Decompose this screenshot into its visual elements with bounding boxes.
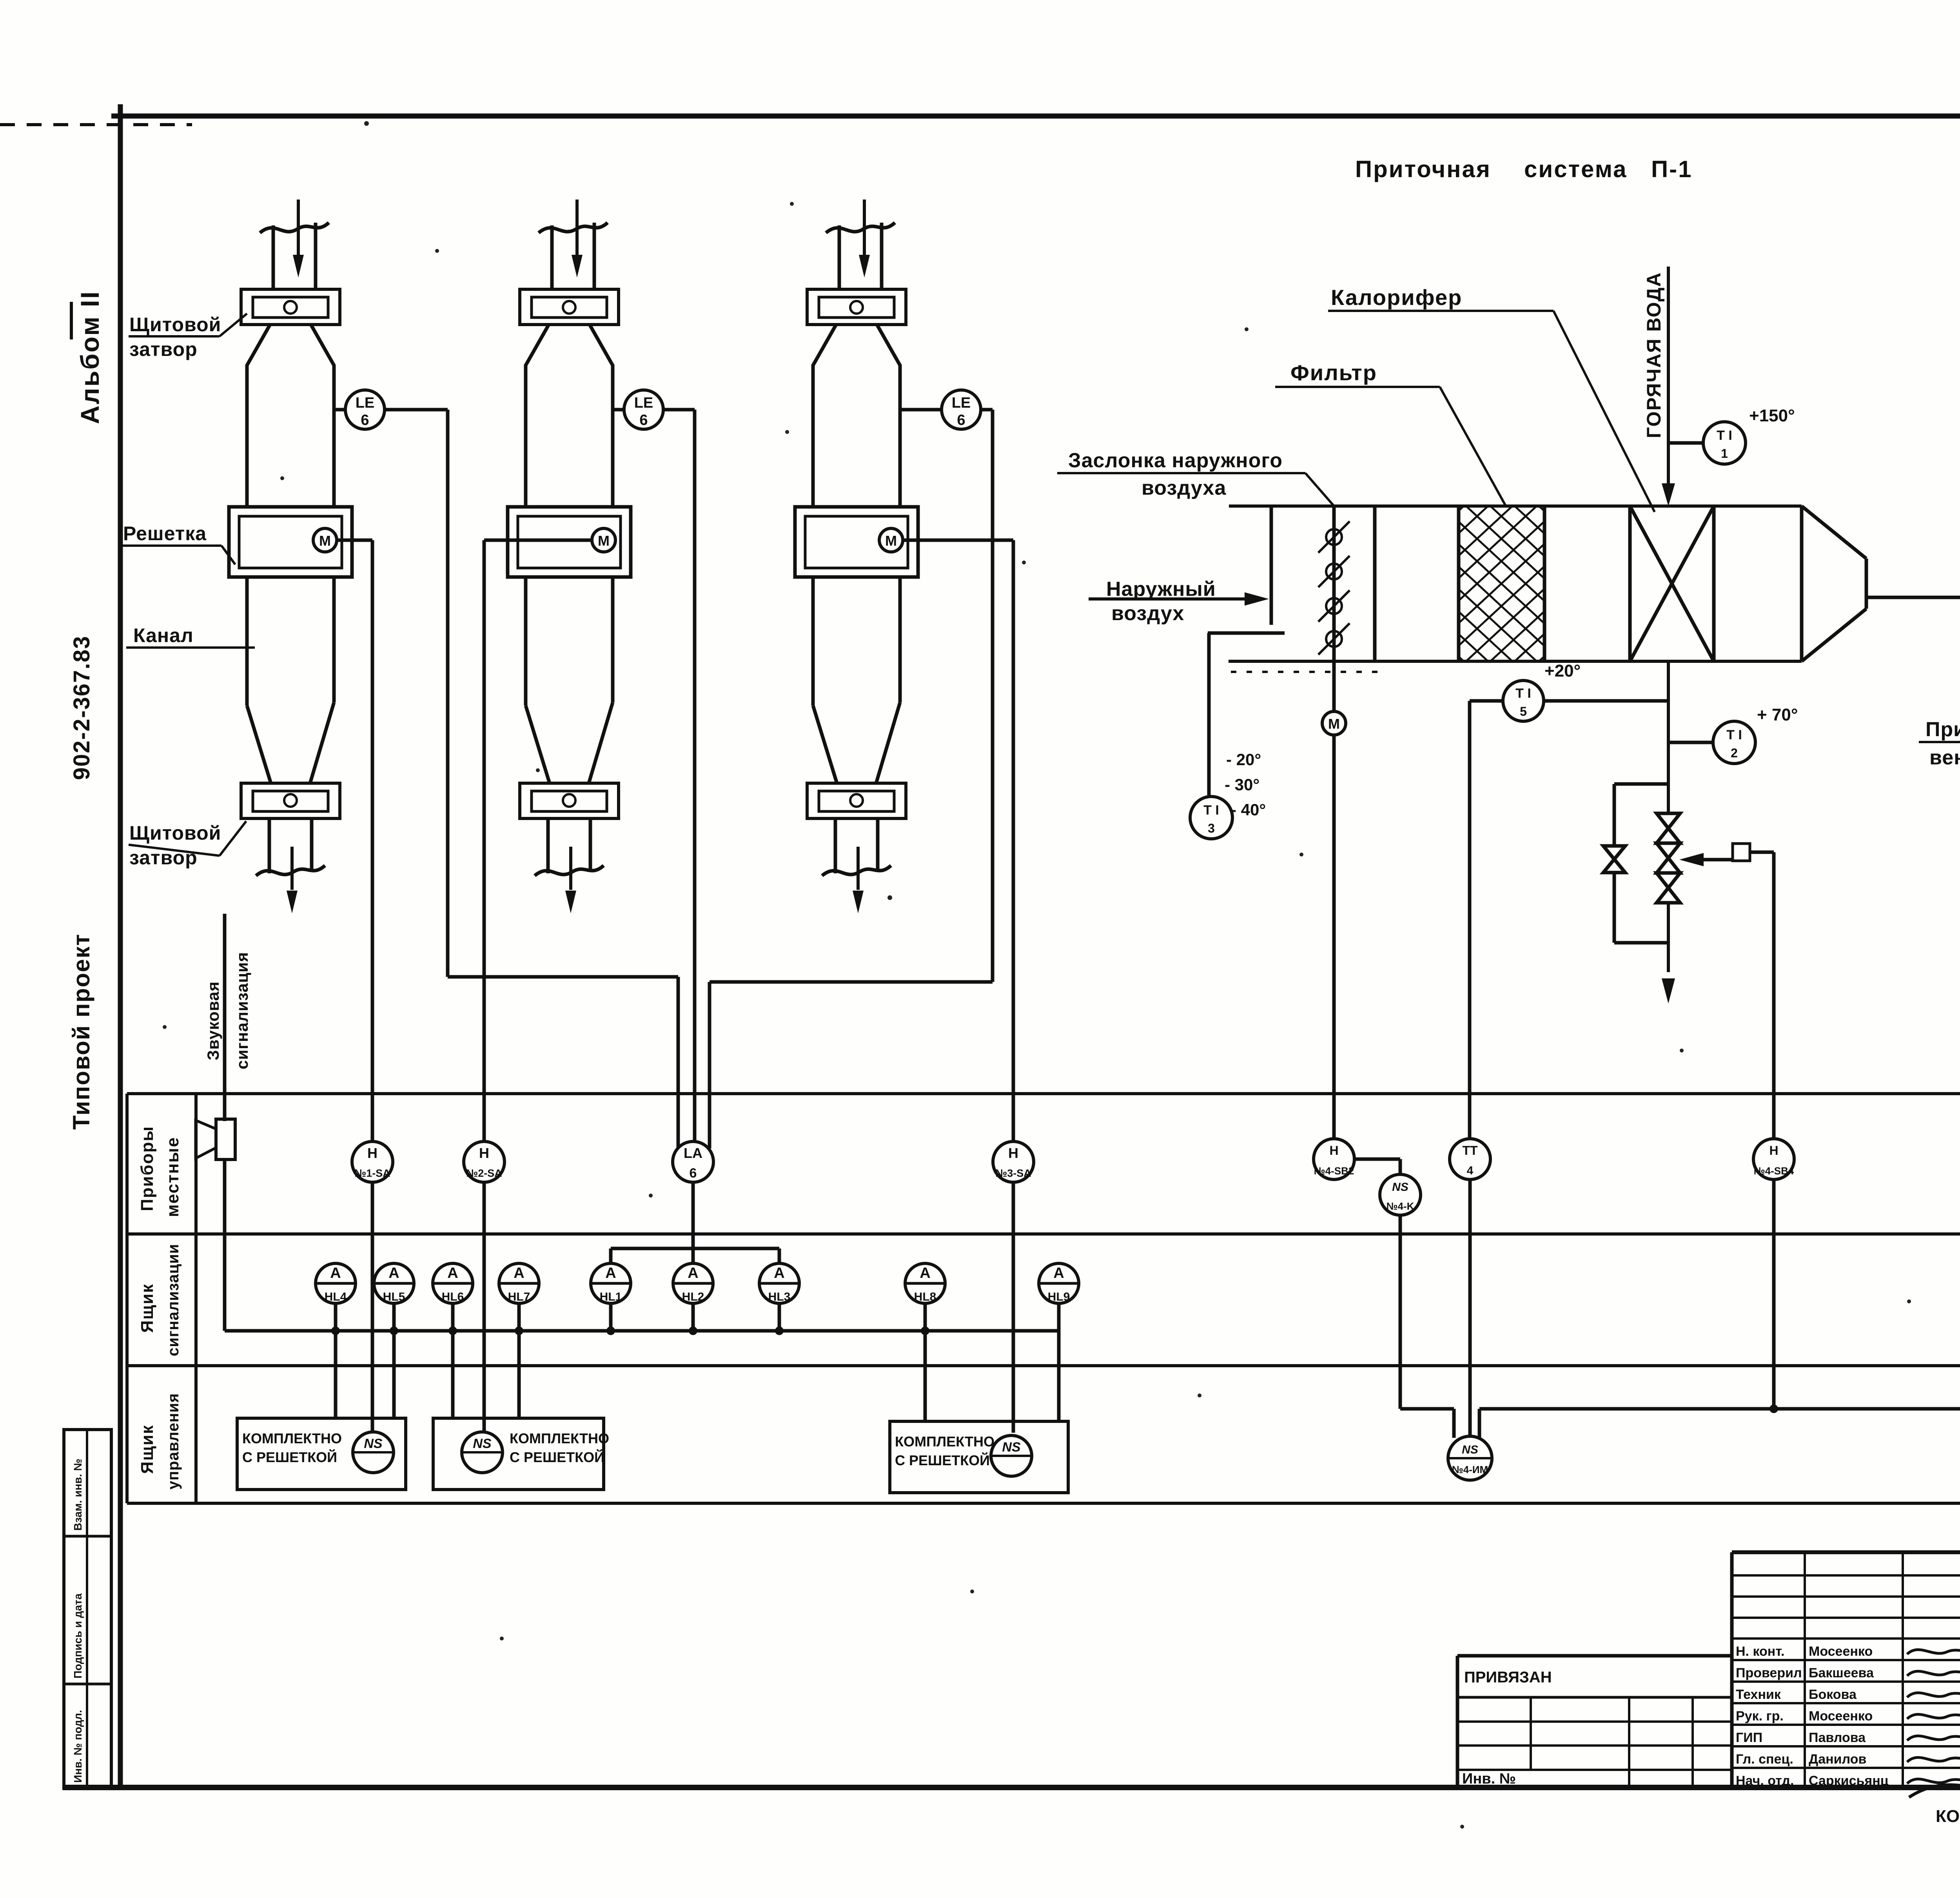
svg-text:С РЕШЕТКОЙ: С РЕШЕТКОЙ	[510, 1449, 604, 1465]
svg-text:HL9: HL9	[1048, 1290, 1070, 1303]
svg-text:HL8: HL8	[914, 1290, 936, 1303]
svg-text:2: 2	[1731, 746, 1738, 760]
damper blade	[1326, 564, 1342, 579]
svg-text:Ящик: Ящик	[138, 1424, 157, 1474]
svg-text:NS: NS	[1462, 1443, 1478, 1456]
hot water return line	[1667, 661, 1670, 813]
filter section right wall	[1543, 506, 1546, 661]
svg-text:воздух: воздух	[1111, 602, 1184, 625]
wire HL9 to bus corner	[1057, 1303, 1061, 1331]
channel 3 bottom gate (щитовой затвор)	[807, 783, 906, 818]
svg-text:NS: NS	[473, 1436, 492, 1451]
channel 3 bottom taper	[813, 706, 837, 783]
channel 3 top taper	[813, 325, 836, 365]
svg-text:HL6: HL6	[442, 1290, 464, 1303]
svg-text:- 30°: - 30°	[1225, 775, 1259, 794]
signal lamp A HL1	[591, 1263, 631, 1303]
svg-text:HL3: HL3	[768, 1290, 791, 1303]
signal lamp A HL2	[673, 1263, 713, 1303]
svg-text:HL1: HL1	[600, 1290, 622, 1303]
channel 3 inlet arrow	[863, 200, 866, 256]
channel 1 level sensor LE6	[334, 408, 345, 412]
svg-text:5: 5	[1520, 704, 1527, 719]
svg-text:A: A	[774, 1265, 784, 1281]
wire H4-SB4 to bus	[1772, 1179, 1776, 1409]
channel 2 outlet arrow	[569, 847, 572, 890]
svg-text:A: A	[330, 1265, 341, 1281]
svg-text:Калорифер: Калорифер	[1331, 285, 1462, 310]
outlet nozzle	[1802, 506, 1866, 559]
svg-text:№3-SA: №3-SA	[995, 1167, 1031, 1179]
svg-text:902-2-367.83: 902-2-367.83	[69, 635, 94, 780]
svg-text:КОМПЛЕКТНО: КОМПЛЕКТНО	[510, 1430, 609, 1446]
channel 3 grille box (решетка)	[795, 507, 918, 577]
channel 1 bottom gate (щитовой затвор)	[241, 783, 340, 818]
damper blade	[1326, 631, 1342, 647]
wire H4-SB2 to NS4-K	[1354, 1158, 1400, 1161]
svg-text:Мосеенко: Мосеенко	[1809, 1709, 1873, 1724]
heater X diagonals	[1630, 506, 1714, 661]
svg-text:HL2: HL2	[682, 1290, 704, 1303]
svg-text:Наружный: Наружный	[1106, 578, 1216, 601]
outside air arrow	[1089, 597, 1245, 601]
wire LA6 down	[691, 1182, 695, 1265]
filter hatch	[1213, 497, 1790, 671]
wire LE2 vertical	[693, 410, 697, 1141]
svg-text:+20°: +20°	[1544, 661, 1581, 680]
svg-text:П-1: П-1	[1651, 156, 1692, 182]
svg-text:Щитовой: Щитовой	[129, 822, 221, 844]
svg-text:затвор: затвор	[129, 338, 198, 360]
svg-text:Заслонка наружного: Заслонка наружного	[1068, 449, 1283, 472]
signal lamp A HL3	[759, 1263, 799, 1303]
channel 2 grille box (решетка)	[508, 507, 631, 577]
wire H2 to control box	[483, 1182, 486, 1433]
thermometer TI2 +70	[1668, 741, 1713, 744]
rows label column	[125, 1094, 129, 1503]
rows table boundaries	[127, 1092, 1960, 1095]
svg-text:LE: LE	[952, 395, 971, 411]
svg-text:КОМПЛЕКТНО: КОМПЛЕКТНО	[242, 1430, 342, 1446]
svg-text:воздуха: воздуха	[1142, 477, 1226, 499]
svg-text:HL5: HL5	[383, 1290, 405, 1303]
channel 2 top taper	[526, 325, 549, 365]
svg-text:3: 3	[1208, 821, 1215, 835]
svg-text:Бакшеева: Бакшеева	[1809, 1666, 1874, 1680]
channel 1 inlet pipe break line	[260, 223, 329, 233]
left column grid	[1457, 1720, 1732, 1723]
svg-text:6: 6	[957, 412, 965, 428]
channel 1 outlet pipe	[268, 818, 271, 873]
wire M2	[484, 539, 592, 542]
svg-text:Альбом II: Альбом II	[75, 290, 104, 424]
svg-text:Приборы: Приборы	[138, 1126, 157, 1211]
channel 1 bottom taper	[247, 706, 271, 783]
speaker symbol	[216, 1119, 235, 1159]
svg-text:A: A	[688, 1265, 698, 1281]
svg-text:Нач. отд.: Нач. отд.	[1736, 1773, 1794, 1788]
wire HL5 to bus	[392, 1303, 396, 1331]
svg-text:TT: TT	[1462, 1143, 1478, 1158]
channel 2 inlet pipe	[550, 225, 554, 290]
svg-text:NS: NS	[1392, 1181, 1408, 1194]
channel 3 grille motor M	[879, 528, 903, 552]
svg-text:A: A	[1053, 1265, 1064, 1281]
wire LE1	[385, 408, 448, 412]
wire звуковая сигнализация	[223, 914, 227, 1121]
temperature transmitter TT4	[1450, 1139, 1490, 1179]
bypass valve	[1603, 846, 1625, 873]
svg-text:Саркисьянц: Саркисьянц	[1809, 1773, 1889, 1788]
svg-text:M: M	[1328, 716, 1340, 732]
channel 2 level sensor LE6	[613, 408, 624, 412]
signal lamp A HL7	[499, 1263, 539, 1303]
svg-text:H: H	[1008, 1145, 1018, 1161]
svg-text:LE: LE	[634, 395, 653, 411]
svg-text:6: 6	[361, 412, 369, 428]
svg-text:NS: NS	[1002, 1440, 1021, 1455]
outside air damper axis	[1332, 506, 1336, 711]
svg-text:Инв. № подл.: Инв. № подл.	[72, 1710, 84, 1783]
svg-text:LE: LE	[356, 395, 375, 411]
channel 2 outlet pipe	[546, 818, 550, 873]
wire LE2	[663, 408, 695, 412]
svg-text:Павлова: Павлова	[1809, 1730, 1866, 1745]
svg-text:Н. конт.: Н. конт.	[1736, 1644, 1784, 1659]
channel 1 body walls	[245, 365, 249, 508]
svg-text:ГОРЯЧАЯ ВОДА: ГОРЯЧАЯ ВОДА	[1643, 272, 1665, 438]
signal lamp A HL5	[374, 1263, 414, 1303]
svg-text:6: 6	[639, 412, 648, 428]
filter section left wall	[1457, 506, 1461, 661]
AHU right wall	[1800, 506, 1804, 661]
big signature flourish	[1909, 1779, 1960, 1797]
svg-text:A: A	[605, 1265, 616, 1281]
damper blade	[1326, 598, 1342, 614]
svg-text:Решетка: Решетка	[123, 523, 207, 544]
wire M1	[337, 539, 372, 542]
signal bus	[225, 1329, 1059, 1333]
local button H №4-SB2	[1314, 1139, 1354, 1179]
channel 1 grille box (решетка)	[229, 507, 352, 577]
wires HL8 HL9 to control box 3	[924, 1331, 927, 1421]
channel 3 outlet break line	[822, 866, 891, 876]
svg-text:- 40°: - 40°	[1231, 800, 1266, 819]
svg-text:С РЕШЕТКОЙ: С РЕШЕТКОЙ	[242, 1449, 337, 1465]
svg-text:№4-K: №4-K	[1387, 1200, 1414, 1212]
channel 1 inlet arrow	[297, 200, 300, 256]
svg-text:4: 4	[1467, 1164, 1474, 1177]
control row bus	[1479, 1407, 1960, 1411]
thermometer TI1 +150	[1668, 441, 1704, 445]
svg-text:LA: LA	[684, 1145, 702, 1161]
svg-text:№4-SB2: №4-SB2	[1314, 1165, 1354, 1177]
svg-text:Фильтр: Фильтр	[1290, 360, 1377, 385]
svg-text:T I: T I	[1717, 428, 1732, 443]
channel 2 bottom gate (щитовой затвор)	[520, 783, 619, 818]
svg-text:Проверил: Проверил	[1736, 1666, 1802, 1680]
svg-text:NS: NS	[364, 1436, 383, 1451]
svg-text:A: A	[447, 1265, 458, 1281]
channel 3 inlet pipe break line	[826, 223, 895, 233]
wire HL3 to bus	[778, 1303, 781, 1331]
channel 3 inlet pipe	[838, 225, 841, 290]
svg-text:Приточная: Приточная	[1355, 156, 1491, 182]
wire TT4 down	[1468, 1179, 1472, 1436]
svg-text:M: M	[598, 533, 610, 549]
svg-text:Мосеенко: Мосеенко	[1809, 1644, 1873, 1659]
channel 2 top gate (щитовой затвор)	[520, 289, 619, 325]
svg-text:Типовой проект: Типовой проект	[68, 933, 94, 1130]
wire damper M down	[1332, 735, 1336, 1139]
wire NS4-K down to row bus	[1399, 1215, 1402, 1409]
signal lamp A HL4	[316, 1263, 356, 1303]
AHU duct bottom wall	[1229, 660, 1802, 663]
svg-text:Техник: Техник	[1736, 1687, 1781, 1702]
svg-text:С РЕШЕТКОЙ: С РЕШЕТКОЙ	[895, 1452, 990, 1468]
wire HL8 to bus	[924, 1303, 927, 1331]
local lamp H №1-SA	[352, 1141, 393, 1182]
channel 2 inlet arrow	[575, 200, 579, 256]
channel 2 grille motor M	[592, 528, 615, 552]
frame left border	[118, 104, 123, 1790]
svg-text:сигнализации: сигнализации	[165, 1244, 182, 1356]
sig table columns	[1804, 1552, 1806, 1787]
local button H №4-SB4	[1753, 1139, 1794, 1179]
title block left column привязан	[1457, 1654, 1732, 1658]
svg-text:ПРИВЯЗАН: ПРИВЯЗАН	[1464, 1669, 1552, 1686]
svg-text:№1-SA: №1-SA	[354, 1167, 390, 1179]
svg-text:ГИП: ГИП	[1736, 1730, 1762, 1745]
hot water supply line	[1667, 267, 1670, 500]
svg-text:Гл. спец.: Гл. спец.	[1736, 1752, 1793, 1767]
control box 3 комплектно с решеткой	[890, 1421, 1068, 1493]
bracket HL1-HL3	[609, 1248, 613, 1265]
wire HL4 to bus	[334, 1303, 338, 1331]
svg-text:Инв. №: Инв. №	[1462, 1771, 1516, 1787]
heater section right wall	[1712, 506, 1716, 661]
local lamp H №2-SA	[464, 1141, 505, 1182]
svg-text:№4-ИМ: №4-ИМ	[1452, 1464, 1488, 1475]
sig table rows	[1732, 1574, 1960, 1577]
svg-text:Взам. инв. №: Взам. инв. №	[72, 1459, 84, 1531]
channel 1 inlet pipe	[272, 225, 275, 290]
channel 3 outlet pipe	[834, 818, 837, 873]
registration dashes top-left	[0, 123, 192, 126]
channel 2 body walls	[524, 365, 528, 508]
svg-text:A: A	[920, 1265, 930, 1281]
wire M3	[903, 539, 1013, 542]
svg-text:H: H	[1329, 1143, 1338, 1158]
wire LE3 vertical and jog	[991, 410, 995, 982]
svg-text:H: H	[367, 1145, 377, 1161]
heater section left wall	[1628, 506, 1632, 661]
control box 1 комплектно с решеткой	[237, 1418, 406, 1490]
wire actuator to H4-SB4	[1772, 852, 1776, 1139]
valve outlet line with arrow	[1667, 903, 1670, 972]
damper sensor lip	[1208, 631, 1285, 635]
svg-text:Приточный: Приточный	[1926, 718, 1960, 741]
wire H3 to control box	[1012, 1182, 1015, 1433]
channel 3 level sensor LE6	[900, 408, 942, 412]
svg-text:местные: местные	[163, 1137, 182, 1217]
starter NS №4-K	[1380, 1174, 1421, 1215]
signal lamp A HL9	[1039, 1263, 1079, 1303]
scan speckles	[364, 121, 369, 126]
thermometer TI5 +20	[1470, 699, 1503, 703]
outlet duct line to fan	[1866, 596, 1960, 599]
svg-text:- 20°: - 20°	[1226, 750, 1261, 769]
wire HL6 to bus	[451, 1303, 455, 1331]
valve actuator	[1679, 853, 1704, 866]
thermometer TI3	[1190, 797, 1232, 839]
wire LE1 vertical and jog	[446, 410, 450, 977]
svg-text:M: M	[885, 533, 897, 549]
outside temp sensor line TI3	[1207, 633, 1211, 797]
svg-text:+150°: +150°	[1749, 406, 1795, 425]
svg-text:Ящик: Ящик	[138, 1283, 157, 1333]
level alarm LA6	[673, 1141, 713, 1182]
frame top border	[111, 114, 1960, 119]
channel 1 top taper	[247, 325, 270, 365]
valve bypass loop	[1614, 782, 1668, 786]
svg-text:КОМПЛЕКТНО: КОМПЛЕКТНО	[895, 1433, 995, 1450]
damper section right wall	[1373, 506, 1377, 661]
damper blade	[1326, 529, 1342, 545]
svg-text:управления: управления	[165, 1393, 182, 1490]
svg-text:Щитовой: Щитовой	[129, 314, 221, 336]
local lamp H №3-SA	[993, 1141, 1034, 1182]
svg-text:+ 70°: + 70°	[1757, 705, 1798, 724]
svg-text:HL7: HL7	[508, 1290, 530, 1303]
title block outline	[1732, 1550, 1960, 1554]
svg-text:Канал: Канал	[133, 624, 194, 646]
wires HL4-HL7 to control boxes	[334, 1331, 338, 1418]
channel 1 top gate (щитовой затвор)	[241, 289, 340, 325]
actuator starter NS №4-ИМ	[1448, 1436, 1492, 1480]
damper section left wall	[1270, 506, 1273, 625]
svg-text:H: H	[1769, 1143, 1778, 1158]
channel 3 outlet arrow	[857, 847, 860, 890]
wire H1 to control box	[371, 1182, 374, 1433]
wire HL1 to bus	[609, 1303, 613, 1331]
svg-text:6: 6	[690, 1166, 697, 1181]
svg-text:сигнализация: сигнализация	[233, 952, 251, 1069]
signal lamp A HL6	[433, 1263, 473, 1303]
wire TI5 riser to TT4	[1468, 701, 1472, 1139]
svg-text:Подпись и дата: Подпись и дата	[72, 1593, 84, 1678]
svg-text:T I: T I	[1515, 686, 1531, 701]
control valve stack (3-way)	[1657, 813, 1680, 843]
svg-text:КОПИРОВАЛ ЕРЕМЧЕНКО: КОПИРОВАЛ ЕРЕМЧЕНКО	[1936, 1807, 1960, 1826]
svg-text:Бокова: Бокова	[1809, 1687, 1857, 1702]
signal lamp A HL8	[905, 1263, 945, 1303]
channel 3 body walls	[811, 365, 815, 508]
svg-text:H: H	[479, 1145, 489, 1161]
AHU duct top wall	[1229, 504, 1802, 508]
svg-text:№4-SB4: №4-SB4	[1754, 1165, 1794, 1177]
channel 2 outlet break line	[535, 866, 604, 876]
svg-text:система: система	[1524, 156, 1628, 182]
svg-text:T I: T I	[1726, 728, 1742, 742]
svg-text:A: A	[388, 1265, 399, 1281]
svg-text:M: M	[319, 533, 331, 549]
channel 1 grille motor M	[313, 528, 337, 552]
wire HL7 to bus	[517, 1303, 521, 1331]
svg-text:№2-SA: №2-SA	[466, 1167, 502, 1179]
channel 1 outlet arrow	[290, 847, 294, 890]
svg-text:вентилятор: вентилятор	[1929, 746, 1960, 769]
svg-text:HL4: HL4	[325, 1290, 347, 1303]
control box 2 комплектно с решеткой	[433, 1418, 604, 1490]
svg-text:Рук. гр.: Рук. гр.	[1736, 1709, 1784, 1724]
wire LE3	[981, 408, 993, 412]
svg-text:1: 1	[1721, 446, 1728, 461]
frame bottom border	[63, 1785, 1960, 1790]
channel 1 outlet break line	[256, 866, 325, 876]
svg-text:Звуковая: Звуковая	[204, 981, 222, 1060]
svg-text:A: A	[514, 1265, 524, 1281]
dashed floor line	[1231, 671, 1384, 673]
svg-text:T I: T I	[1203, 803, 1219, 818]
channel 3 top gate (щитовой затвор)	[807, 289, 906, 325]
margin strip boxes	[64, 1430, 111, 1788]
channel 2 bottom taper	[526, 706, 550, 783]
damper motor M	[1322, 711, 1346, 735]
wire HL2 to bus	[691, 1303, 695, 1331]
channel 2 inlet pipe break line	[539, 223, 608, 233]
svg-text:Данилов: Данилов	[1809, 1752, 1866, 1767]
